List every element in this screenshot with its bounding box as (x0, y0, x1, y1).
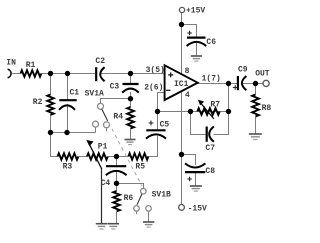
svg-text:C8: C8 (205, 167, 215, 176)
svg-text:R2: R2 (33, 98, 43, 107)
svg-text:R6: R6 (124, 194, 134, 203)
svg-text:R4: R4 (113, 112, 123, 121)
svg-text:4: 4 (185, 91, 190, 100)
svg-text:C9: C9 (238, 65, 248, 74)
svg-text:3(5): 3(5) (146, 66, 165, 75)
svg-text:IN: IN (6, 58, 16, 67)
svg-text:OUT: OUT (255, 70, 270, 79)
svg-text:1(7): 1(7) (202, 75, 221, 84)
svg-text:IC1: IC1 (174, 80, 189, 89)
svg-text:C7: C7 (205, 144, 215, 153)
svg-text:C5: C5 (160, 120, 170, 129)
svg-text:C2: C2 (95, 57, 105, 66)
svg-text:SV1A: SV1A (85, 89, 104, 98)
svg-text:C3: C3 (110, 83, 120, 92)
svg-text:SV1B: SV1B (152, 191, 171, 200)
svg-text:P1: P1 (98, 143, 108, 152)
svg-text:8: 8 (185, 67, 190, 76)
svg-text:R3: R3 (63, 162, 73, 171)
svg-text:R5: R5 (135, 162, 145, 171)
svg-text:R1: R1 (26, 61, 36, 70)
svg-text:C4: C4 (101, 179, 111, 188)
svg-text:-15V: -15V (188, 204, 207, 213)
svg-text:R7: R7 (210, 100, 220, 109)
svg-text:C1: C1 (70, 89, 80, 98)
svg-text:R8: R8 (262, 104, 272, 113)
svg-text:C6: C6 (206, 38, 216, 47)
svg-text:2(6): 2(6) (144, 84, 163, 93)
svg-text:+15V: +15V (186, 7, 205, 16)
